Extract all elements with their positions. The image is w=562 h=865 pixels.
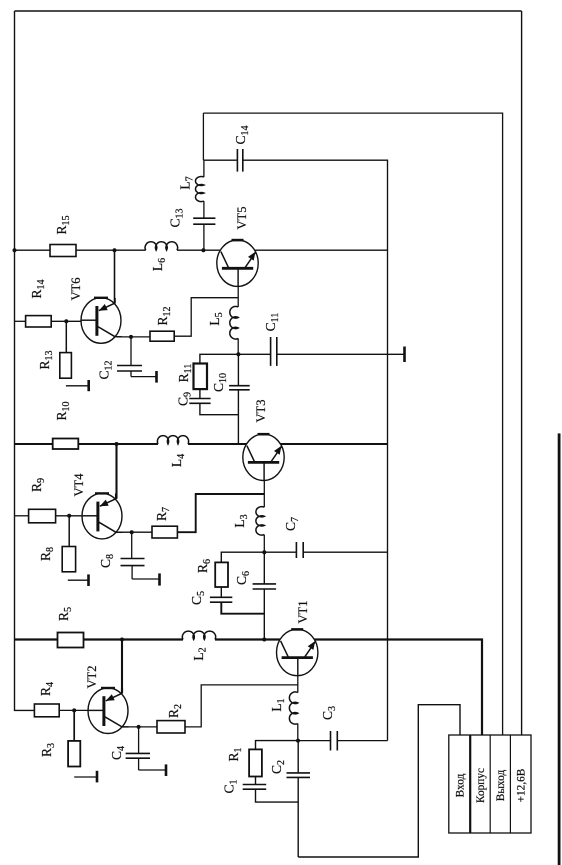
wire C4 bottom — [138, 759, 140, 770]
wire C13 to rail1 — [203, 225, 205, 251]
wire VT5 base lead — [237, 268, 239, 307]
wire stage3 rail left — [15, 638, 184, 640]
transistor VT1 — [277, 629, 318, 676]
wire stage2 supply rail right — [188, 443, 388, 445]
capacitor C4 — [126, 753, 150, 758]
ground C12 — [131, 376, 157, 378]
ground C11 — [277, 353, 404, 355]
node C6 rail3 — [262, 638, 266, 642]
resistor R1 — [249, 749, 262, 776]
node supply-R15 — [13, 248, 17, 252]
node R14-R13-base — [64, 319, 68, 323]
connector block outline — [449, 735, 531, 833]
wire R13 branch — [65, 321, 67, 378]
wire L7 top branch — [202, 113, 204, 160]
inductor L7 — [195, 177, 203, 202]
svg-text:Выход: Выход — [495, 770, 507, 802]
resistor R13 — [60, 353, 72, 379]
wire C6 bottom to rail3 — [263, 589, 265, 639]
ground C8 — [132, 578, 159, 580]
ground R3 — [74, 776, 97, 778]
capacitor C6 — [253, 584, 277, 589]
svg-text:VT6: VT6 — [69, 278, 83, 301]
wire input from connector — [298, 705, 460, 857]
transistor VT4 — [82, 493, 123, 539]
svg-text:Корпус: Корпус — [475, 768, 487, 803]
wire C14 right / emitter bus — [243, 160, 387, 740]
wire +12.6V right border to connector — [521, 11, 523, 735]
resistor R8 — [62, 547, 75, 572]
wire C6 branch — [263, 552, 265, 583]
svg-text:+12,6В: +12,6В — [516, 769, 528, 803]
resistor R9 — [29, 509, 56, 523]
inductor L5 — [230, 306, 238, 339]
wire C1 to bottom join — [256, 790, 299, 803]
wire R9 to VT4 base — [56, 515, 98, 517]
node R9-R8-base — [67, 514, 71, 518]
capacitor C8 — [121, 559, 145, 566]
resistor R5 — [58, 633, 84, 648]
resistor R11 — [194, 364, 208, 390]
svg-text:VT5: VT5 — [235, 207, 249, 230]
connector divider 3 — [509, 735, 511, 833]
wire C10 branch — [237, 354, 239, 385]
inductor L1 — [289, 692, 297, 724]
node VT5 base network — [236, 352, 240, 356]
wire C7 right — [304, 551, 388, 553]
wire R14 left — [15, 320, 26, 322]
wire C3 right — [338, 740, 388, 742]
wire VT3 base lead — [263, 462, 265, 507]
node R4-R3-base — [72, 708, 76, 712]
wire output net to connector — [203, 113, 502, 735]
ground C4 — [139, 769, 166, 771]
transistor VT6 — [81, 298, 122, 344]
wire VT3 base below L3 — [263, 535, 265, 553]
svg-text:VT1: VT1 — [296, 601, 310, 624]
wire R12 to VT5 base — [174, 298, 238, 337]
ground R13 — [66, 385, 89, 387]
resistor R6 — [215, 562, 228, 587]
wire C11 left — [238, 353, 270, 355]
wire VT4 emitter to rail — [115, 444, 117, 499]
node VT4 emitter rail — [115, 442, 119, 446]
svg-text:Вход: Вход — [455, 773, 467, 797]
wire +12.6V left border feed — [15, 11, 35, 710]
wire C7 left — [264, 551, 296, 553]
wire top supply rail — [15, 10, 522, 12]
wire C5 to bottom join — [221, 603, 264, 614]
node VT2 emitter rail — [120, 638, 124, 642]
resistor R10 — [53, 439, 79, 450]
connector divider 1 (thick) — [469, 735, 471, 833]
wire R2 to VT1 base — [185, 685, 298, 727]
transistor VT5 — [217, 240, 258, 287]
wire VT2 collector node — [122, 726, 157, 728]
inductor L6 — [145, 242, 178, 250]
resistor R2 — [157, 721, 185, 733]
capacitor C2 — [287, 773, 311, 778]
svg-text:VT3: VT3 — [254, 400, 268, 423]
wire C4 branch — [138, 727, 140, 753]
resistor R3 — [68, 741, 80, 767]
wire C13 to rail — [203, 160, 205, 177]
capacitor C14 — [237, 149, 242, 172]
inductor L3 — [256, 507, 264, 535]
capacitor C7 — [296, 542, 303, 558]
wire VT5 base below L5 — [237, 338, 239, 354]
svg-text:VT4: VT4 — [72, 473, 86, 497]
wire VT1 base below L1 — [297, 724, 299, 741]
wire VT6 emitter to rail — [114, 250, 116, 303]
wire R9 left — [15, 515, 29, 517]
node VT2 collector — [137, 725, 141, 729]
resistor R4 — [34, 704, 59, 717]
wire R7 to VT3 base — [177, 494, 264, 532]
wire C8 bottom — [131, 566, 133, 579]
frame bar (bottom right) — [558, 433, 561, 865]
wire stage1 supply rail left — [15, 249, 146, 251]
connector divider 2 — [489, 735, 491, 833]
wire R1 branch top — [256, 741, 299, 785]
wire stage2 supply rail left — [15, 443, 159, 445]
capacitor C5 — [210, 597, 232, 602]
transistor VT3 — [243, 434, 284, 481]
node C13 rail — [201, 248, 205, 252]
capacitor C11 — [271, 337, 277, 366]
wire C8 branch — [131, 532, 133, 558]
wire R14 to VT6 base — [51, 320, 97, 322]
wire VT1 base lead — [297, 658, 299, 693]
node VT3 base network — [262, 550, 266, 554]
capacitor C12 — [117, 366, 142, 372]
node VT6 emitter rail — [113, 248, 117, 252]
wire L7-C13 — [203, 201, 205, 218]
capacitor C1 — [243, 785, 267, 790]
wire R11 branch top — [200, 354, 239, 398]
wire R4 to VT2 base — [59, 709, 104, 711]
wire C9 to bottom join — [200, 404, 239, 415]
node VT1 base network — [296, 739, 300, 743]
wire C10 bottom to rail2 — [237, 390, 239, 444]
wire stage1 supply rail right — [177, 249, 388, 251]
resistor R14 — [26, 316, 52, 327]
ground R8 — [68, 579, 89, 581]
wire R8 branch — [68, 516, 70, 572]
wire R6 branch top — [221, 552, 264, 597]
wire C12 branch — [130, 337, 132, 365]
wire C2 bottom to input — [297, 778, 299, 857]
wire C14 left — [203, 159, 236, 161]
node VT4 collector — [130, 530, 134, 534]
transistor VT2 — [88, 688, 129, 734]
resistor R7 — [152, 526, 177, 538]
wire C3 left — [298, 740, 330, 742]
node VT6 collector — [129, 335, 133, 339]
resistor R12 — [150, 331, 174, 341]
resistor R15 — [50, 245, 76, 257]
wire stage3 rail right / common to connector — [215, 640, 482, 736]
capacitor C10 — [229, 386, 250, 390]
wire VT6 collector node — [117, 336, 150, 338]
inductor L2 — [182, 631, 215, 639]
wire C2 branch — [297, 741, 299, 773]
capacitor C3 — [331, 731, 338, 751]
inductor L4 — [157, 436, 188, 444]
wire VT4 collector node — [118, 531, 152, 533]
wire R3 branch — [73, 710, 75, 766]
capacitor C13 — [193, 218, 215, 224]
capacitor C9 — [189, 399, 210, 404]
svg-text:VT2: VT2 — [85, 666, 99, 689]
wire VT2 emitter to rail — [121, 640, 123, 694]
wire C12 bottom — [130, 371, 132, 376]
